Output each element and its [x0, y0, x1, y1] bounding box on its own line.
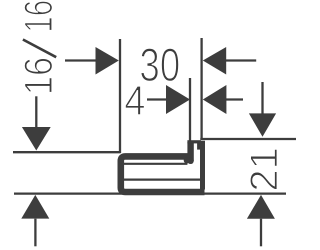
label 30	[141, 48, 179, 81]
extension line 4-left vertical	[189, 78, 191, 141]
extension line 30-left vertical	[119, 39, 121, 153]
extension line bottom (full width)	[14, 192, 286, 194]
extension line top-left (top of rail)	[13, 151, 121, 153]
object: wall-mounted rail side profile	[121, 141, 205, 192]
arrow 4 right (points left)	[203, 85, 227, 114]
lip-bar junction bulge	[184, 157, 190, 163]
tail 30-left arrow	[65, 59, 96, 61]
arrow 21 bottom (points up)	[247, 195, 275, 219]
tail 4-right arrow	[226, 98, 243, 100]
hook lip vertical	[187, 142, 193, 161]
label 16/16: slash (rotated)	[23, 40, 56, 58]
label 21 (rotated)	[250, 149, 277, 189]
label 16/16: top run 16 (rotated)	[24, 1, 52, 30]
tail 4-left arrow	[147, 98, 167, 100]
inner thin line under top bar	[124, 163, 187, 165]
dim line 21 lower tail	[260, 219, 262, 247]
tab	[197, 142, 201, 150]
dim line 16/16 upper segment	[35, 96, 37, 127]
bridge over lip and tab	[187, 140, 201, 143]
dim line 21 upper segment	[261, 82, 263, 114]
tail 30-right arrow	[226, 59, 256, 61]
arrow 16/16 bottom (points up)	[21, 195, 49, 219]
extension line wall-plate top (right)	[200, 138, 296, 140]
arrow 21 top (points down)	[249, 113, 276, 136]
dim line 16/16 lower tail	[34, 219, 36, 247]
main C outline: top bar, rounded left edge, bottom bar	[121, 156, 205, 192]
arrow 30 left (points right)	[96, 47, 119, 75]
arrow 16/16 top (points down)	[22, 127, 51, 151]
inner thin line above bottom bar	[124, 179, 201, 181]
arrow 4 left (points right)	[166, 85, 190, 114]
arrow 30 right (points left)	[203, 47, 226, 75]
extension line 30/4-right vertical (wall line)	[200, 38, 202, 140]
label 4	[125, 86, 144, 115]
label 16/16: bottom run 16 (rotated)	[24, 58, 52, 92]
wall plate front edge	[200, 141, 205, 190]
lip rounded tip	[187, 158, 193, 164]
